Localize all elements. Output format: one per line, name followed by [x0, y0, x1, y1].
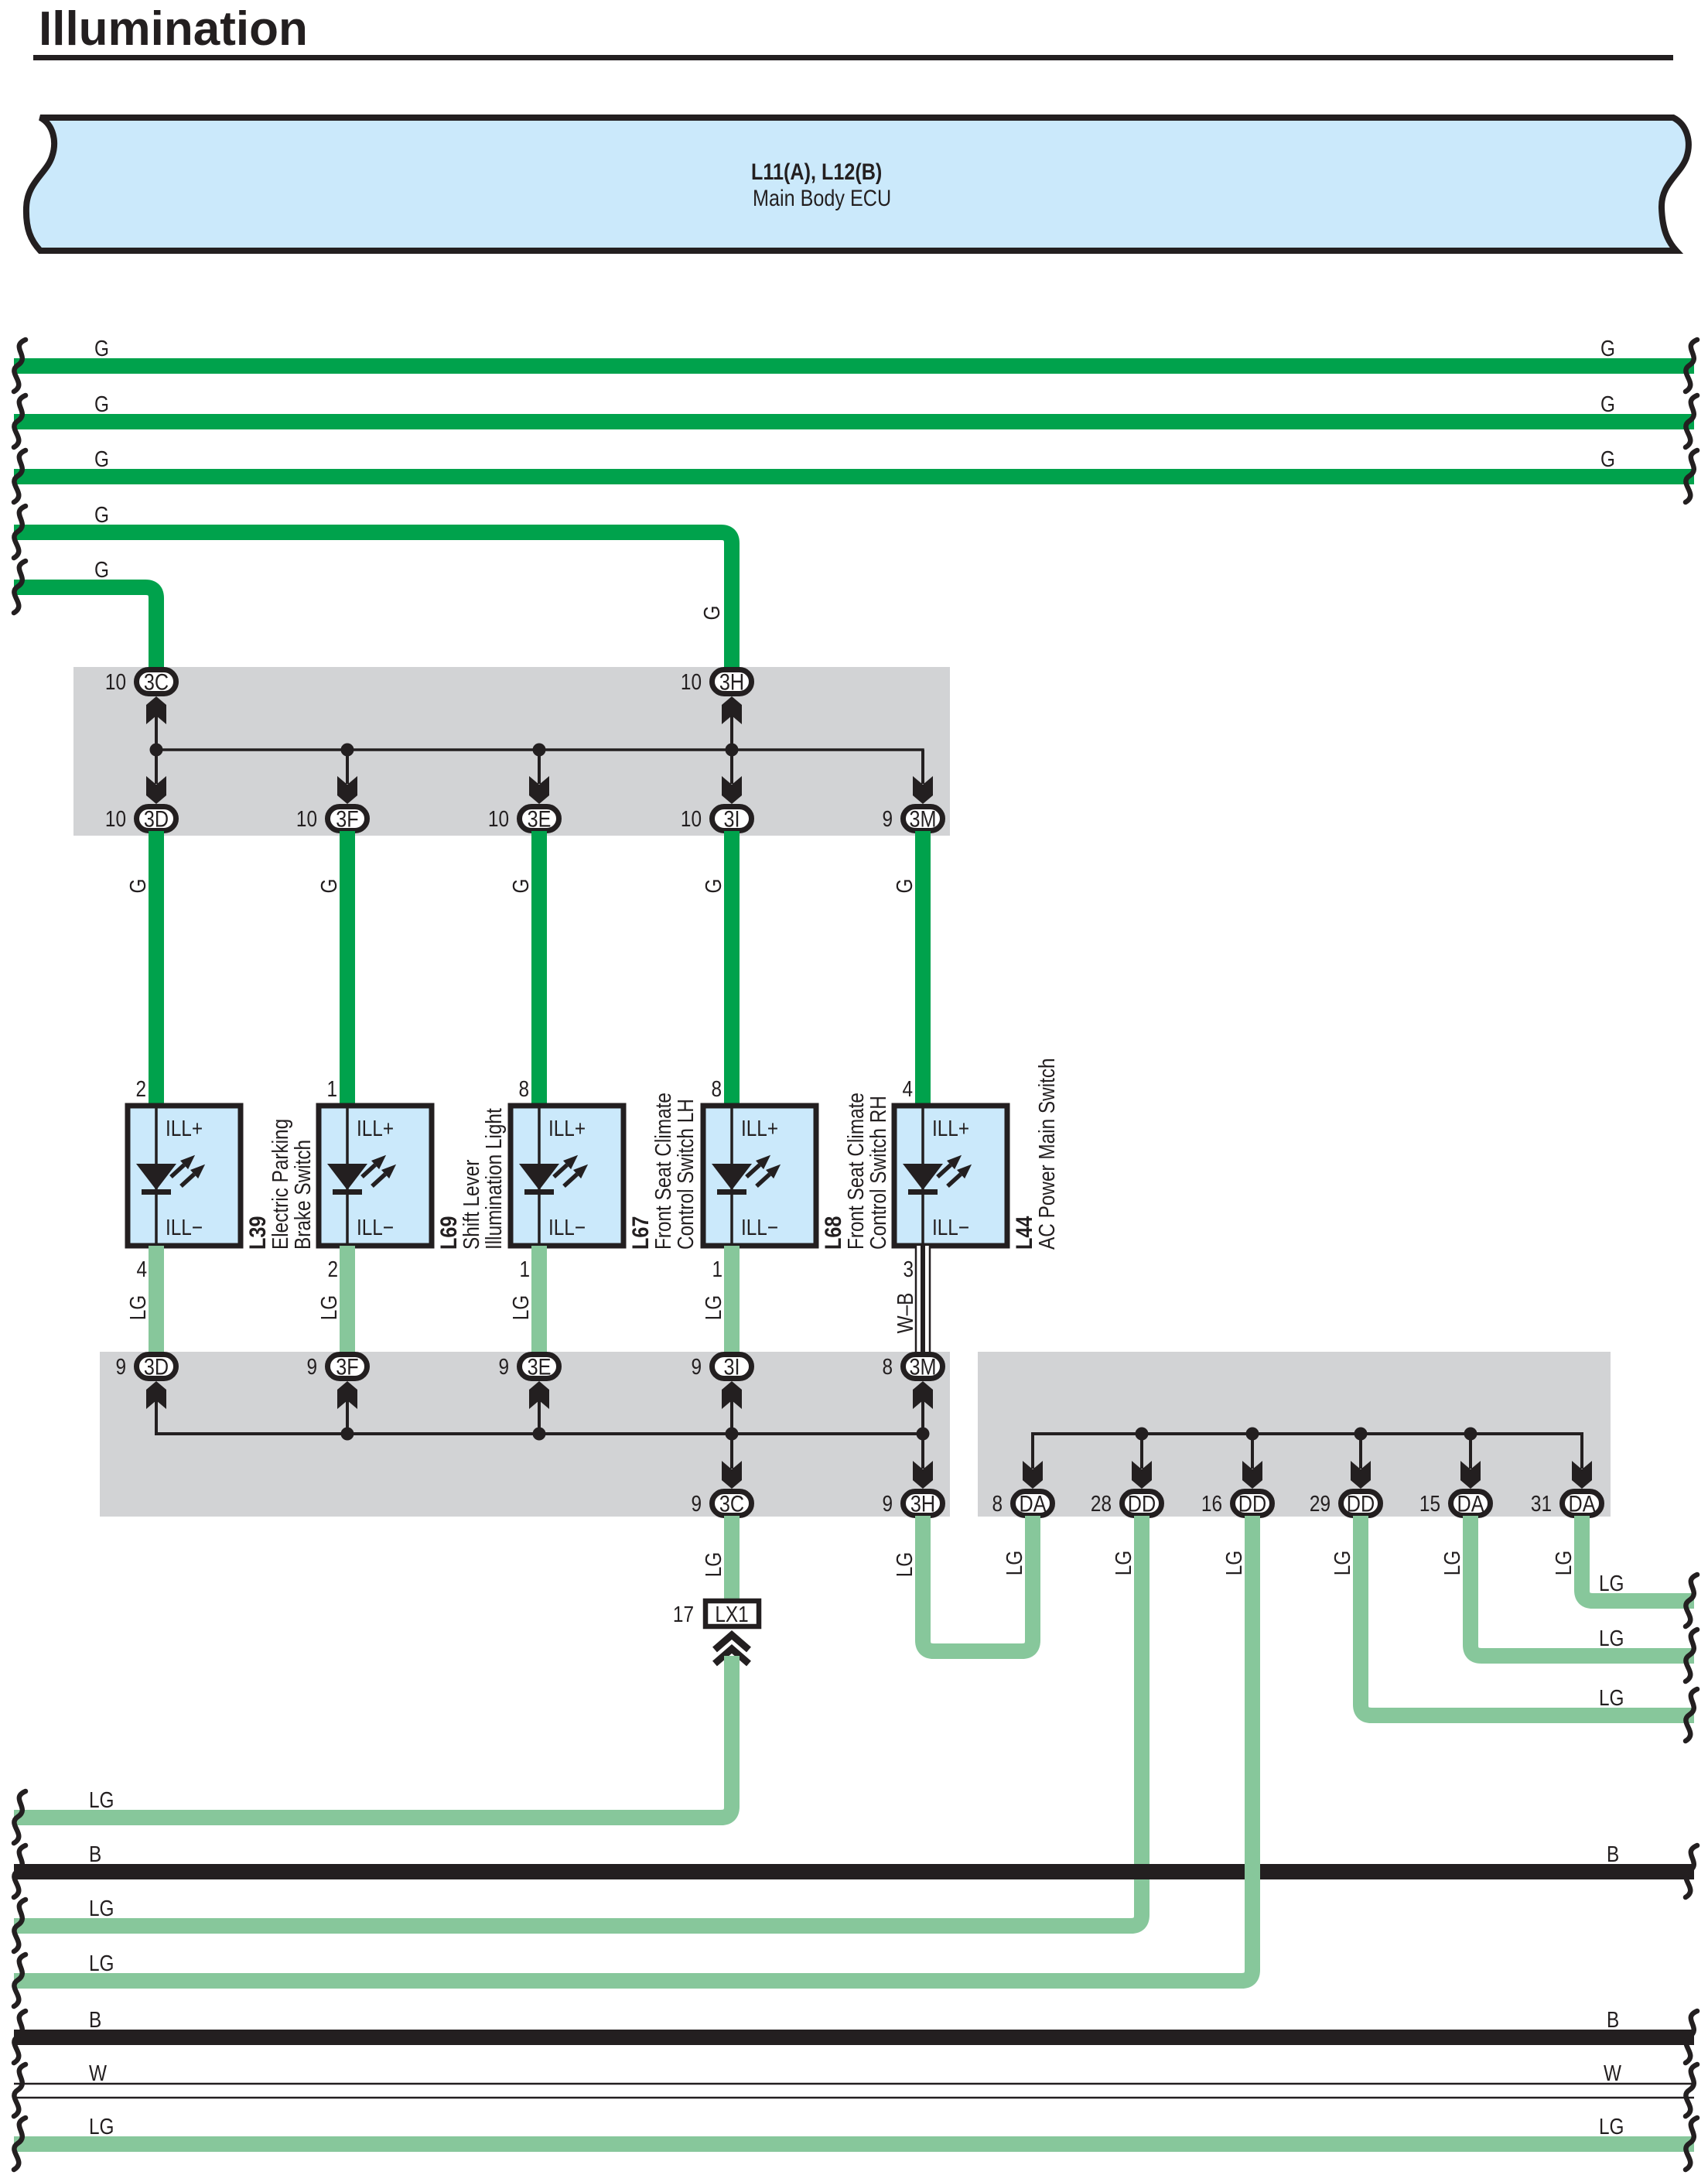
svg-text:17: 17 [673, 1602, 694, 1626]
component L39 box [128, 1106, 241, 1246]
svg-text:L44: L44 [1011, 1216, 1037, 1250]
connector 16 DD [1233, 1492, 1272, 1516]
svg-text:ILL−: ILL− [741, 1215, 778, 1240]
junction dot 3H/3I [726, 744, 739, 757]
svg-text:28: 28 [1091, 1491, 1112, 1516]
svg-text:3I: 3I [723, 805, 740, 832]
svg-text:L68: L68 [820, 1216, 846, 1250]
svg-text:4: 4 [136, 1257, 147, 1281]
break left G bus 3 [14, 450, 26, 502]
wire G bus 3 [14, 469, 1694, 484]
svg-text:ILL−: ILL− [166, 1215, 203, 1240]
svg-text:1: 1 [712, 1257, 722, 1281]
arrow into 3D [146, 776, 166, 804]
svg-text:1: 1 [519, 1257, 530, 1281]
connector 9 3H (band B) [904, 1492, 943, 1516]
svg-text:LX1: LX1 [715, 1602, 748, 1626]
wire LG bus bottom [14, 2136, 1694, 2152]
svg-text:G: G [1600, 446, 1615, 471]
band C junction line [1033, 1434, 1582, 1469]
svg-text:Main Body ECU: Main Body ECU [753, 185, 891, 211]
arrow into 3F [337, 776, 357, 804]
stem down 3F [346, 750, 349, 784]
wire LG DD29 stub [1361, 1516, 1694, 1715]
band B junction dot 3F [341, 1428, 354, 1441]
stem down 3I [730, 750, 733, 784]
band C junction dot DD29 [1354, 1428, 1368, 1441]
title rule [33, 55, 1673, 60]
svg-text:29: 29 [1310, 1491, 1331, 1516]
L69 LED triangle [327, 1164, 367, 1190]
band B arrow into 3H [913, 1461, 933, 1489]
connector 9 3E (band B) [520, 1355, 559, 1379]
L68 LED emission arrow 1 [746, 1165, 760, 1178]
svg-text:3C: 3C [144, 669, 169, 695]
wire LG DD16 to left [14, 1516, 1252, 1981]
svg-text:10: 10 [681, 806, 702, 831]
ECU L11/L12 Main Body ECU banner [26, 118, 1689, 251]
break right G bus 2 [1686, 395, 1697, 447]
L44 LED triangle [903, 1164, 943, 1190]
svg-text:DD: DD [1347, 1490, 1375, 1517]
svg-text:9: 9 [882, 806, 893, 831]
L68 LED triangle [712, 1164, 752, 1190]
wire B bus 1 [14, 1864, 1694, 1879]
connector 9 3M [904, 807, 943, 831]
svg-text:LG: LG [701, 1295, 726, 1320]
break left G bus 1 [14, 340, 26, 392]
stem up 3H [730, 716, 733, 750]
wire G to L44 [915, 831, 931, 1106]
svg-text:Front Seat Climate: Front Seat Climate [843, 1093, 868, 1250]
LX1 chevron arrows [715, 1635, 749, 1664]
svg-text:W: W [1604, 2061, 1622, 2085]
break right G bus 1 [1686, 340, 1697, 392]
stem down 3D [155, 750, 158, 784]
svg-text:G: G [125, 879, 150, 894]
connector band C (gray) [978, 1352, 1611, 1517]
svg-text:16: 16 [1201, 1491, 1222, 1516]
band C arrow into DD28 [1132, 1461, 1152, 1489]
band B stem up 3I [730, 1401, 733, 1434]
svg-text:LG: LG [1330, 1551, 1354, 1575]
svg-text:9: 9 [306, 1354, 317, 1379]
band C stem down DD29 [1359, 1434, 1362, 1469]
svg-text:10: 10 [488, 806, 509, 831]
svg-text:3D: 3D [144, 805, 169, 832]
svg-text:2: 2 [327, 1257, 338, 1281]
svg-text:LG: LG [316, 1295, 341, 1320]
band C junction dot DA15 [1464, 1428, 1477, 1441]
L44 LED emission arrow 1 [938, 1165, 951, 1178]
svg-text:Control Switch RH: Control Switch RH [866, 1096, 890, 1250]
svg-text:G: G [892, 879, 917, 894]
connector 9 3C (band B) [712, 1492, 752, 1516]
connector 10 3C [137, 670, 176, 694]
break right G bus 3 [1686, 450, 1697, 502]
wire B bus 2 [14, 2030, 1694, 2045]
svg-text:2: 2 [135, 1076, 146, 1101]
break left W bus [14, 2064, 26, 2116]
L67 internal line [538, 1106, 541, 1246]
svg-text:3M: 3M [910, 1353, 937, 1380]
svg-text:L39: L39 [244, 1216, 271, 1250]
svg-text:3F: 3F [336, 1353, 358, 1380]
L39 LED cathode bar [142, 1189, 171, 1195]
svg-text:ILL+: ILL+ [357, 1116, 394, 1141]
svg-text:G: G [94, 446, 109, 471]
svg-text:B: B [1607, 1842, 1619, 1866]
break left LG DD28 [14, 1900, 26, 1951]
wire G bus 1 [14, 358, 1694, 374]
band B arrow into 3D [146, 1381, 166, 1409]
connector 10 3H [712, 670, 752, 694]
svg-text:LG: LG [701, 1552, 726, 1577]
svg-text:LG: LG [1111, 1551, 1136, 1575]
wire G to L67 [531, 831, 547, 1106]
break left G bus 2 [14, 395, 26, 447]
svg-text:ILL−: ILL− [548, 1215, 586, 1240]
svg-text:DA: DA [1020, 1490, 1047, 1517]
connector 10 3E [520, 807, 559, 831]
svg-text:9: 9 [882, 1491, 893, 1516]
wire LG 3H-DA loop [923, 1516, 1033, 1651]
svg-text:ILL+: ILL+ [166, 1116, 203, 1141]
wire LG 3C to LX1 [724, 1516, 740, 1599]
band C arrow into DA31 [1572, 1461, 1592, 1489]
svg-text:10: 10 [105, 669, 126, 694]
svg-text:9: 9 [498, 1354, 509, 1379]
connector 29 DD [1341, 1492, 1381, 1516]
svg-text:B: B [89, 2007, 101, 2032]
band C stem down DD16 [1251, 1434, 1254, 1469]
band B junction line [156, 1401, 923, 1434]
svg-text:G: G [508, 879, 533, 894]
svg-text:LG: LG [508, 1295, 533, 1320]
svg-text:ILL+: ILL+ [741, 1116, 778, 1141]
svg-text:G: G [94, 557, 109, 582]
svg-text:Front Seat Climate: Front Seat Climate [651, 1093, 675, 1250]
wire LG from L39 [149, 1246, 164, 1355]
connector 17 LX1 [705, 1601, 759, 1626]
svg-text:LG: LG [1002, 1551, 1027, 1575]
svg-text:G: G [1600, 392, 1615, 416]
junction dot 3F [341, 744, 354, 757]
connector 10 3F [328, 807, 367, 831]
svg-text:Shift Lever: Shift Lever [459, 1160, 483, 1250]
band B arrow into 3E [529, 1381, 549, 1409]
svg-text:LG: LG [89, 1896, 114, 1920]
svg-text:3H: 3H [719, 669, 744, 695]
L69 LED emission arrow 1 [362, 1165, 375, 1178]
L68 LED emission arrow 2 [757, 1175, 770, 1187]
L69 internal line [346, 1106, 349, 1246]
L67 LED emission arrow 1 [554, 1165, 567, 1178]
svg-text:ILL+: ILL+ [932, 1116, 969, 1141]
component L69 box [319, 1106, 432, 1246]
svg-text:W: W [89, 2061, 108, 2085]
connector band B (gray) [100, 1352, 950, 1517]
connector 15 DA [1451, 1492, 1491, 1516]
connector 9 3F (band B) [328, 1355, 367, 1379]
band B junction dot 3M [917, 1428, 930, 1441]
svg-text:9: 9 [115, 1354, 126, 1379]
L67 LED triangle [519, 1164, 559, 1190]
band A junction line [156, 750, 923, 774]
wire G to L68 [724, 831, 740, 1106]
wire G bus 2 [14, 414, 1694, 429]
svg-text:10: 10 [681, 669, 702, 694]
svg-text:8: 8 [882, 1354, 893, 1379]
svg-text:LG: LG [1599, 1626, 1624, 1650]
break left B bus 1 [14, 1845, 26, 1897]
component L44 box [894, 1106, 1007, 1246]
svg-text:G: G [94, 502, 109, 527]
svg-text:Brake Switch: Brake Switch [290, 1140, 315, 1250]
svg-text:9: 9 [691, 1491, 702, 1516]
svg-text:Illumination Light: Illumination Light [481, 1108, 506, 1250]
wire W-B from L44 [915, 1246, 931, 1355]
break left LG LX1 [14, 1791, 26, 1843]
band B stem down 3H [921, 1434, 924, 1469]
svg-text:10: 10 [105, 806, 126, 831]
L67 LED cathode bar [524, 1189, 554, 1195]
band B stem down 3C [730, 1434, 733, 1469]
L44 LED cathode bar [908, 1189, 938, 1195]
svg-text:G: G [316, 879, 341, 894]
connector band A (gray) [73, 667, 950, 836]
svg-text:DD: DD [1128, 1490, 1156, 1517]
svg-text:B: B [1607, 2007, 1619, 2032]
svg-text:Control Switch LH: Control Switch LH [673, 1099, 698, 1250]
svg-text:L69: L69 [436, 1216, 462, 1250]
break left LG bottom [14, 2118, 26, 2170]
wire G to L39 [149, 831, 164, 1106]
L68 internal line [730, 1106, 733, 1246]
break left B bus 2 [14, 2011, 26, 2063]
component L68 box [703, 1106, 816, 1246]
connector 10 3D [137, 807, 176, 831]
L39 internal line [155, 1106, 158, 1246]
svg-text:3F: 3F [336, 805, 358, 832]
wire LG from L69 [340, 1246, 355, 1355]
svg-text:3D: 3D [144, 1353, 169, 1380]
svg-text:LG: LG [1599, 1685, 1624, 1710]
svg-text:LG: LG [125, 1295, 150, 1320]
break right B bus 1 [1686, 1845, 1697, 1897]
svg-text:LG: LG [1551, 1551, 1576, 1575]
svg-text:3I: 3I [723, 1353, 740, 1380]
band C junction dot DD16 [1246, 1428, 1259, 1441]
band B junction dot 3E [533, 1428, 546, 1441]
L68 LED cathode bar [717, 1189, 746, 1195]
wire G to 3C [14, 587, 156, 667]
svg-text:3M: 3M [910, 805, 937, 832]
svg-text:3C: 3C [719, 1490, 744, 1517]
svg-text:31: 31 [1531, 1491, 1552, 1516]
svg-text:3E: 3E [528, 1353, 552, 1380]
wire LG LX1 to left [14, 1656, 732, 1818]
svg-text:8: 8 [711, 1076, 722, 1101]
arrow into 3M [913, 776, 933, 804]
junction dot 3E [533, 744, 546, 757]
svg-text:LG: LG [1599, 2114, 1624, 2139]
junction dot 3C/3D [150, 744, 163, 757]
svg-text:LG: LG [89, 1951, 114, 1975]
connector 9 3D (band B) [137, 1355, 176, 1379]
break left LG DD16 [14, 1955, 26, 2006]
band B stem up 3E [538, 1401, 541, 1434]
band C arrow into DA8 [1023, 1461, 1043, 1489]
connector 8 DA [1013, 1492, 1053, 1516]
band B arrow into 3M [913, 1381, 933, 1409]
band B arrow into 3I [722, 1381, 742, 1409]
wire LG DD28 to left [14, 1516, 1142, 1926]
svg-text:AC Power Main Switch: AC Power Main Switch [1034, 1058, 1059, 1250]
band B arrow into 3C [722, 1461, 742, 1489]
svg-text:8: 8 [992, 1491, 1003, 1516]
svg-text:LG: LG [1221, 1551, 1246, 1575]
connector 28 DD [1122, 1492, 1162, 1516]
wire W bus [14, 2083, 1694, 2098]
svg-text:ILL−: ILL− [932, 1215, 969, 1240]
connector 9 3I (band B) [712, 1355, 752, 1379]
L69 LED emission arrow 2 [372, 1175, 385, 1187]
svg-text:L11(A), L12(B): L11(A), L12(B) [751, 159, 882, 185]
svg-text:LG: LG [1440, 1551, 1464, 1575]
band B junction dot 3I [726, 1428, 739, 1441]
arrow into 3H [722, 696, 742, 724]
svg-text:10: 10 [296, 806, 317, 831]
L44 LED emission arrow 2 [948, 1175, 961, 1187]
L39 LED emission arrow 2 [181, 1175, 194, 1187]
svg-text:ILL−: ILL− [357, 1215, 394, 1240]
svg-text:3H: 3H [910, 1490, 935, 1517]
svg-text:G: G [699, 606, 724, 621]
svg-text:B: B [89, 1842, 101, 1866]
svg-text:W–B: W–B [893, 1293, 917, 1334]
stem down 3E [538, 750, 541, 784]
arrow into 3I [722, 776, 742, 804]
svg-text:DD: DD [1238, 1490, 1266, 1517]
band C arrow into DD29 [1351, 1461, 1371, 1489]
svg-text:8: 8 [518, 1076, 529, 1101]
svg-text:LG: LG [892, 1552, 917, 1577]
svg-text:3E: 3E [528, 805, 552, 832]
svg-text:LG: LG [89, 1787, 114, 1812]
svg-text:9: 9 [691, 1354, 702, 1379]
connector 31 DA [1563, 1492, 1602, 1516]
band C arrow into DD16 [1242, 1461, 1262, 1489]
arrow into 3E [529, 776, 549, 804]
svg-text:1: 1 [326, 1076, 337, 1101]
svg-text:4: 4 [902, 1076, 913, 1101]
wire LG from L68 [724, 1246, 740, 1355]
band B arrow into 3F [337, 1381, 357, 1409]
break right LG DD29 [1686, 1689, 1697, 1741]
connector 10 3I [712, 807, 752, 831]
break right W bus [1686, 2064, 1697, 2116]
svg-text:Electric Parking: Electric Parking [268, 1119, 292, 1250]
svg-text:3: 3 [903, 1257, 914, 1281]
stem down 3M [921, 750, 924, 784]
component L67 box [511, 1106, 623, 1246]
connector 8 3M (band B) [904, 1355, 943, 1379]
svg-text:DA: DA [1457, 1490, 1484, 1517]
band C stem down DA15 [1469, 1434, 1472, 1469]
wire G to L69 [340, 831, 355, 1106]
wire LG from L67 [531, 1246, 547, 1355]
break right LG bottom [1686, 2118, 1697, 2170]
break right LG DA31 [1686, 1575, 1697, 1626]
break left G to 3H [14, 506, 26, 558]
band C arrow into DA15 [1460, 1461, 1481, 1489]
svg-text:G: G [1600, 336, 1615, 361]
L44 internal line [921, 1106, 924, 1246]
svg-text:15: 15 [1419, 1491, 1440, 1516]
arrow into 3C [146, 696, 166, 724]
svg-text:LG: LG [1599, 1571, 1624, 1595]
svg-text:G: G [94, 336, 109, 361]
svg-text:LG: LG [89, 2114, 114, 2139]
svg-text:ILL+: ILL+ [548, 1116, 586, 1141]
L69 LED cathode bar [333, 1189, 362, 1195]
L67 LED emission arrow 2 [564, 1175, 577, 1187]
break right LG DA15 [1686, 1630, 1697, 1681]
band B stem up 3F [346, 1401, 349, 1434]
break left G to 3C [14, 561, 26, 613]
L39 LED triangle [136, 1164, 176, 1190]
stem up 3C [155, 716, 158, 750]
wire LG DA31 stub [1582, 1516, 1694, 1601]
band C junction dot DD28 [1136, 1428, 1149, 1441]
svg-text:L67: L67 [627, 1216, 654, 1250]
svg-text:G: G [94, 392, 109, 416]
break right B bus 2 [1686, 2011, 1697, 2063]
svg-text:Illumination: Illumination [39, 2, 308, 56]
svg-text:G: G [701, 879, 726, 894]
band C stem down DD28 [1140, 1434, 1143, 1469]
svg-text:DA: DA [1569, 1490, 1596, 1517]
wire LG DA15 stub [1471, 1516, 1694, 1656]
L39 LED emission arrow 1 [171, 1165, 184, 1178]
wire G to 3H [14, 532, 732, 667]
